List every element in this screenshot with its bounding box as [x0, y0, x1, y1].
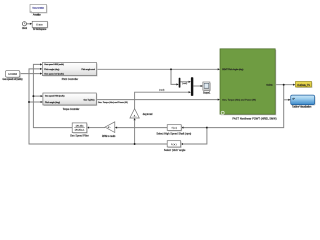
- svg-text:Turbine Visualization: Turbine Visualization: [292, 106, 312, 109]
- svg-text:122.9096: 122.9096: [8, 74, 18, 76]
- svg-text:Select 'pitch' angle: Select 'pitch' angle: [164, 149, 186, 152]
- svg-text:Clock: Clock: [22, 27, 28, 30]
- svg-text:time: time: [36, 23, 43, 26]
- svg-text:OutData_TS: OutData_TS: [297, 84, 310, 87]
- svg-text:Gen speed ref (rad/s): Gen speed ref (rad/s): [3, 78, 23, 81]
- svg-text:Annotation: Annotation: [33, 13, 42, 16]
- svg-text:Gen. Torque (Nm) and Power (W): Gen. Torque (Nm) and Power (W): [98, 101, 128, 104]
- svg-text:(rad): (rad): [159, 89, 165, 91]
- svg-text:-K-: -K-: [107, 127, 111, 129]
- svg-text:Scope1: Scope1: [203, 91, 211, 94]
- svg-text:f(u): f(u): [171, 144, 176, 146]
- svg-text:Pitch Controller: Pitch Controller: [62, 78, 79, 81]
- svg-text:Gen. Torque (Nm) and Power (W): Gen. Torque (Nm) and Power (W): [222, 99, 256, 102]
- svg-text:Documentation: Documentation: [33, 7, 45, 10]
- svg-text:f(u): f(u): [172, 128, 177, 130]
- svg-text:Gen Speed Filter: Gen Speed Filter: [70, 134, 89, 137]
- svg-text:Pitch angle cmd: Pitch angle cmd: [81, 68, 95, 71]
- svg-text:FAST Nonlinear FOWT (NREL 5MW): FAST Nonlinear FOWT (NREL 5MW): [232, 117, 276, 121]
- svg-text:-K-: -K-: [133, 116, 137, 118]
- svg-text:(rad): (rad): [182, 83, 188, 85]
- svg-text:BEMT Pitch Angles (deg): BEMT Pitch Angles (deg): [222, 68, 243, 71]
- svg-text:Gen speed ref (rad/s): Gen speed ref (rad/s): [44, 72, 64, 75]
- svg-text:Gen speed HSS (rad/s): Gen speed HSS (rad/s): [44, 63, 64, 66]
- svg-text:Gen speed HSS (rad/s): Gen speed HSS (rad/s): [45, 95, 65, 98]
- svg-text:To Workspace: To Workspace: [33, 28, 47, 31]
- svg-text:RPM to rad/s: RPM to rad/s: [102, 135, 116, 138]
- svg-text:Pitch angle (deg): Pitch angle (deg): [44, 68, 59, 71]
- svg-text:Torque Controller: Torque Controller: [63, 108, 80, 111]
- svg-text:OutData: OutData: [266, 84, 273, 87]
- svg-text:Select High Speed Shaft (rpm): Select High Speed Shaft (rpm): [156, 133, 191, 136]
- svg-text:Gen Tq (Nm): Gen Tq (Nm): [84, 99, 95, 101]
- svg-text:1/0.25s+1: 1/0.25s+1: [75, 130, 86, 132]
- svg-text:deg to rad: deg to rad: [143, 113, 153, 116]
- svg-text:Pitch angle (deg): Pitch angle (deg): [45, 101, 60, 104]
